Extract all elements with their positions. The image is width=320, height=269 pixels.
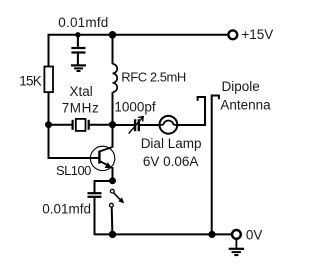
svg-text:Dial Lamp: Dial Lamp <box>141 136 202 151</box>
node top cap tap <box>75 32 80 37</box>
switch S1 key <box>110 189 125 235</box>
svg-text:Antenna: Antenna <box>220 98 271 113</box>
capacitor C3 0.01mfd bottom <box>88 193 102 235</box>
wire emitter down <box>112 167 114 181</box>
antenna left element <box>198 96 206 101</box>
node bottom left junction <box>109 231 116 238</box>
wire base lead <box>48 157 101 159</box>
wire antenna feed down <box>211 95 213 236</box>
wire lamp to antenna <box>177 97 205 125</box>
svg-text:RFC 2.5mH: RFC 2.5mH <box>121 69 186 84</box>
ground top <box>71 65 86 71</box>
wire left vertical lower <box>48 92 50 159</box>
terminal 0V <box>232 230 241 239</box>
wire junction to cap branch <box>95 181 113 193</box>
node right crystal junction <box>109 121 116 128</box>
wire bottom rail <box>95 233 233 235</box>
node emitter junction <box>109 177 116 184</box>
inductor L1 RFC 2.5mH <box>113 64 118 92</box>
svg-text:7MHz: 7MHz <box>62 101 100 116</box>
wire crystal left <box>49 124 73 126</box>
node bottom right junction <box>208 231 215 238</box>
wire trimmer to lamp <box>140 124 160 126</box>
svg-text:1000pf: 1000pf <box>114 99 156 114</box>
wire crystal right <box>89 124 113 126</box>
transistor Q1 SL100 <box>90 146 114 170</box>
terminal +15V <box>228 30 237 39</box>
capacitor C1 0.01mfd top <box>71 35 85 65</box>
svg-text:0.01mfd: 0.01mfd <box>42 202 91 217</box>
wire right vertical below coil <box>112 92 114 147</box>
ground bottom <box>229 239 244 255</box>
wire to trimmer <box>113 124 135 126</box>
svg-text:0V: 0V <box>246 227 263 242</box>
wire right vertical above coil <box>112 35 114 64</box>
svg-text:+15V: +15V <box>241 27 273 42</box>
svg-text:Xtal: Xtal <box>70 84 93 99</box>
svg-text:SL100: SL100 <box>56 163 91 178</box>
wire top rail <box>49 34 229 36</box>
wire left vertical upper <box>48 34 50 67</box>
svg-text:Dipole: Dipole <box>222 79 260 94</box>
capacitor C2 1000pf trimmer <box>129 117 144 134</box>
svg-text:15K: 15K <box>19 73 41 88</box>
resistor R1 15K body <box>44 67 53 93</box>
crystal X1 7MHz <box>73 119 89 131</box>
svg-text:0.01mfd: 0.01mfd <box>58 15 108 30</box>
svg-text:6V 0.06A: 6V 0.06A <box>143 154 199 169</box>
lamp DL1 <box>160 116 178 134</box>
antenna right element <box>212 95 219 100</box>
node top right junction <box>109 31 117 39</box>
node left crystal junction <box>45 121 52 128</box>
